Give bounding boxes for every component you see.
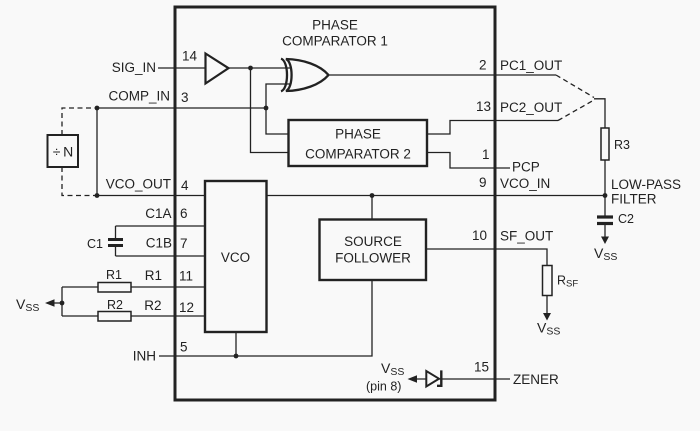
phase comparator 2 box bbox=[289, 120, 428, 166]
wire dashed PC1_OUT to low-pass filter bbox=[556, 75, 594, 98]
divider feedback dashed wires bbox=[62, 108, 97, 135]
node junction feedback top bbox=[95, 106, 100, 111]
svg-text:COMP_IN: COMP_IN bbox=[108, 89, 170, 104]
svg-text:R2: R2 bbox=[144, 298, 161, 313]
svg-text:SOURCE: SOURCE bbox=[344, 234, 402, 249]
svg-text:2: 2 bbox=[479, 58, 487, 73]
svg-text:PHASE: PHASE bbox=[335, 127, 381, 142]
svg-text:C1B: C1B bbox=[146, 236, 172, 251]
zener diode D1 bbox=[426, 371, 439, 387]
wire to XOR lower input bbox=[266, 84, 290, 108]
XOR gate phase comparator 1 bbox=[281, 59, 329, 92]
svg-text:FILTER: FILTER bbox=[611, 192, 657, 207]
arrow to VSS left bbox=[45, 299, 55, 307]
svg-text:R1: R1 bbox=[106, 268, 122, 282]
svg-text:COMPARATOR 2: COMPARATOR 2 bbox=[305, 147, 411, 162]
node junction buffer output bbox=[248, 66, 253, 71]
wire pin 11 bbox=[62, 286, 205, 288]
wire PC2 output to pin 13 bbox=[427, 121, 558, 135]
svg-text:ZENER: ZENER bbox=[513, 372, 559, 387]
node junction INH VCO bbox=[234, 354, 239, 359]
wire filter node elbow bbox=[594, 99, 605, 128]
node junction feedback bottom bbox=[95, 193, 100, 198]
svg-text:C1A: C1A bbox=[145, 206, 171, 221]
arrow to VSS below C2 bbox=[601, 237, 609, 245]
divide-by-N box bbox=[48, 135, 79, 167]
svg-text:PC1_OUT: PC1_OUT bbox=[500, 58, 562, 73]
svg-text:12: 12 bbox=[179, 300, 194, 315]
label VSS (pin 8) bbox=[366, 360, 404, 394]
label LOW-PASS FILTER bbox=[611, 177, 681, 207]
wire dashed PC2_OUT to low-pass filter bbox=[558, 100, 594, 121]
svg-text:COMPARATOR 1: COMPARATOR 1 bbox=[282, 34, 388, 49]
svg-text:7: 7 bbox=[180, 236, 188, 251]
wire VCO_OUT bbox=[97, 195, 205, 197]
node junction filter bbox=[603, 193, 608, 198]
svg-text:5: 5 bbox=[180, 340, 188, 355]
svg-text:R3: R3 bbox=[614, 138, 630, 152]
wire VCO_IN from VCO box to filter node bbox=[266, 195, 605, 197]
svg-text:VCO: VCO bbox=[221, 250, 250, 265]
wire to phase comparator 2 upper input bbox=[266, 108, 289, 134]
label PHASE COMPARATOR 1 bbox=[282, 18, 388, 49]
wire R1 R2 common vertical bbox=[61, 287, 63, 316]
resistor R1 bbox=[98, 283, 131, 293]
svg-text:LOW-PASS: LOW-PASS bbox=[611, 177, 681, 192]
svg-text:SF_OUT: SF_OUT bbox=[500, 229, 553, 244]
wire VCO bottom to INH bbox=[235, 332, 237, 356]
wire feedback vertical bbox=[96, 108, 98, 196]
svg-text:15: 15 bbox=[474, 360, 489, 375]
resistor RSF bbox=[543, 266, 553, 296]
svg-text:4: 4 bbox=[181, 178, 189, 193]
node junction VSS left bbox=[60, 301, 65, 306]
resistor R2 bbox=[98, 312, 131, 322]
svg-text:SIG_IN: SIG_IN bbox=[112, 60, 156, 75]
svg-text:PHASE: PHASE bbox=[312, 18, 358, 33]
svg-text:14: 14 bbox=[182, 49, 198, 64]
svg-text:VCO_OUT: VCO_OUT bbox=[106, 177, 171, 192]
wire source follower input bbox=[371, 196, 373, 220]
svg-text:C2: C2 bbox=[618, 212, 634, 226]
wire pin 7 C1B bbox=[116, 255, 206, 257]
wire buffer output to XOR top input bbox=[229, 67, 291, 69]
capacitor C1 bbox=[115, 226, 117, 238]
wire to VSS arrow bbox=[53, 302, 62, 304]
wire PC2 output to pin 1 PCP bbox=[427, 153, 510, 169]
svg-text:9: 9 bbox=[479, 175, 487, 190]
svg-text:6: 6 bbox=[180, 206, 188, 221]
svg-text:R1: R1 bbox=[145, 268, 162, 283]
svg-text:INH: INH bbox=[133, 349, 156, 364]
IC chip outline U1 bbox=[175, 7, 495, 400]
VCO box bbox=[205, 181, 267, 332]
wire pin 6 C1A bbox=[116, 225, 206, 227]
label SOURCE FOLLOWER bbox=[335, 234, 411, 266]
svg-text:VCO_IN: VCO_IN bbox=[500, 176, 550, 191]
node junction COMP_IN bbox=[264, 106, 269, 111]
wire SIG_IN to buffer bbox=[158, 67, 205, 69]
svg-text:PC2_OUT: PC2_OUT bbox=[500, 100, 562, 115]
wire pin 12 bbox=[62, 315, 205, 317]
resistor R3 bbox=[601, 128, 609, 160]
capacitor C2 bbox=[597, 217, 613, 224]
wire INH bbox=[159, 280, 372, 356]
wire SF_OUT bbox=[426, 249, 547, 266]
svg-text:÷ N: ÷ N bbox=[53, 144, 74, 160]
svg-text:(pin 8): (pin 8) bbox=[366, 380, 401, 394]
buffer amplifier A1 bbox=[206, 54, 229, 84]
source follower box bbox=[320, 220, 427, 281]
label PHASE COMPARATOR 2 bbox=[305, 127, 411, 162]
svg-text:FOLLOWER: FOLLOWER bbox=[335, 251, 411, 266]
wire COMP_IN bbox=[97, 107, 266, 109]
arrow to VSS below RSF bbox=[543, 313, 551, 321]
wire RSF to VSS arrow bbox=[546, 296, 548, 314]
node junction source follower input bbox=[370, 193, 375, 198]
svg-text:C1: C1 bbox=[87, 237, 103, 251]
svg-text:PCP: PCP bbox=[512, 160, 540, 175]
wire PC1_OUT bbox=[328, 74, 556, 76]
arrow to VSS pin 8 bbox=[408, 375, 418, 383]
svg-text:10: 10 bbox=[472, 228, 487, 243]
svg-text:3: 3 bbox=[181, 90, 189, 105]
svg-text:1: 1 bbox=[482, 147, 490, 162]
wire ZENER bbox=[416, 378, 510, 380]
svg-text:13: 13 bbox=[476, 99, 491, 114]
svg-text:11: 11 bbox=[179, 269, 193, 284]
wire junction down to phase comparator 2 lower input bbox=[251, 68, 289, 153]
svg-text:R2: R2 bbox=[107, 298, 123, 312]
